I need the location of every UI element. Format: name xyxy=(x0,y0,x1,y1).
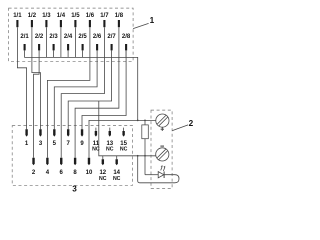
wire + bus from pin 2/1 to power module xyxy=(25,50,138,120)
connector pin 2/2 (label + pin) xyxy=(35,34,44,51)
connector pin 1/6 (label + pin) xyxy=(86,13,95,27)
wire pin 1/1 to terminal 1 xyxy=(17,27,26,129)
wire stub pin 1/5 to bus xyxy=(74,27,76,57)
wire stub pin 2/4 to bus xyxy=(67,50,69,57)
terminal 10 xyxy=(86,158,93,176)
wire minus branch to minus screw terminal xyxy=(99,101,156,156)
connector pin 1/7 (label + pin) xyxy=(100,13,109,27)
svg-text:NC: NC xyxy=(92,146,100,152)
resistor R1 xyxy=(142,120,149,155)
wire pin 1/7 to terminal 6 xyxy=(61,27,104,158)
svg-text:2/6: 2/6 xyxy=(93,34,102,40)
svg-text:4: 4 xyxy=(46,170,50,176)
junction bus / + rail xyxy=(137,120,139,122)
wire bus branch to terminal 10 xyxy=(89,120,138,157)
svg-text:1/2: 1/2 xyxy=(28,13,37,19)
wire pin 2/2 to terminal 2 xyxy=(34,50,40,157)
svg-text:5: 5 xyxy=(53,141,57,147)
svg-text:1/7: 1/7 xyxy=(100,13,109,19)
terminal 8 xyxy=(73,158,77,176)
svg-text:1/8: 1/8 xyxy=(115,13,124,19)
junction LED return / minus rail xyxy=(137,155,139,157)
svg-text:2: 2 xyxy=(189,119,194,128)
svg-text:2/4: 2/4 xyxy=(64,34,73,40)
svg-text:9: 9 xyxy=(80,141,84,147)
minus screw terminal xyxy=(156,148,169,161)
wire stub pin 2/8 to + bus xyxy=(125,50,127,57)
terminal 11 (NC) xyxy=(92,128,100,153)
svg-text:2/8: 2/8 xyxy=(122,34,131,40)
connector pin 1/1 (label + pin) xyxy=(13,13,22,27)
terminal 12 (NC) xyxy=(99,156,107,182)
terminal 15 (NC) xyxy=(120,128,128,153)
connector pin 2/3 (label + pin) xyxy=(49,34,58,51)
connector pin 2/6 (label + pin) xyxy=(93,34,102,51)
svg-text:1/1: 1/1 xyxy=(13,13,22,19)
svg-text:NC: NC xyxy=(120,146,128,152)
svg-text:1/5: 1/5 xyxy=(71,13,80,19)
svg-text:10: 10 xyxy=(86,170,93,176)
svg-text:2/1: 2/1 xyxy=(20,34,29,40)
LED D1 with wiring loop xyxy=(138,156,179,183)
wire pin 1/8 to terminal 8 xyxy=(75,27,119,158)
connector pin 2/4 (label + pin) xyxy=(64,34,73,51)
wire stub pin 2/3 to bus xyxy=(53,50,55,57)
wire pin 2/7 to terminal 7 xyxy=(68,50,111,129)
terminal 6 xyxy=(60,158,64,176)
power module outline (dashed box) node 2 xyxy=(151,110,172,188)
terminal 9 xyxy=(80,129,84,147)
terminal 3 xyxy=(39,129,43,147)
svg-text:1: 1 xyxy=(25,141,29,147)
connector pin 2/7 (label + pin) xyxy=(107,34,116,51)
svg-text:2/3: 2/3 xyxy=(49,34,58,40)
terminal 4 xyxy=(46,158,50,176)
svg-text:6: 6 xyxy=(60,170,64,176)
terminal 13 (NC) xyxy=(106,128,114,153)
svg-text:1/3: 1/3 xyxy=(42,13,51,19)
svg-text:2/2: 2/2 xyxy=(35,34,44,40)
svg-text:NC: NC xyxy=(106,146,114,152)
svg-text:12: 12 xyxy=(99,170,106,176)
svg-text:7: 7 xyxy=(67,141,71,147)
label 1 with leader line xyxy=(133,16,155,29)
svg-text:3: 3 xyxy=(39,141,43,147)
wire pin 2/6 to terminal 5 xyxy=(54,50,97,129)
terminal 5 xyxy=(53,129,57,147)
minus label xyxy=(160,145,164,147)
wire + rail to plus screw terminal xyxy=(138,119,157,121)
LED emission arrows xyxy=(161,165,166,171)
svg-text:2/7: 2/7 xyxy=(107,34,116,40)
wire stub pin 1/3 to bus xyxy=(45,27,47,57)
label 3 xyxy=(72,184,77,193)
svg-text:NC: NC xyxy=(99,176,107,182)
connector pin 1/5 (label + pin) xyxy=(71,13,80,27)
wire pin 2/8 to terminal 9 xyxy=(82,50,126,129)
wire pin 1/6 to terminal 4 xyxy=(47,27,90,158)
connector pin 2/8 (label + pin) xyxy=(122,34,131,51)
terminal 2 xyxy=(32,158,36,176)
svg-text:14: 14 xyxy=(113,170,120,176)
connector pin 1/8 (label + pin) xyxy=(115,13,124,27)
terminal 7 xyxy=(67,129,71,147)
terminal 1 xyxy=(25,129,29,147)
svg-text:1/6: 1/6 xyxy=(86,13,95,19)
svg-text:1/4: 1/4 xyxy=(57,13,66,19)
wire stub pin 1/4 to bus xyxy=(60,27,62,57)
svg-text:2: 2 xyxy=(32,170,36,176)
junction resistor / minus rail xyxy=(144,155,146,157)
connector pin 2/5 (label + pin) xyxy=(78,34,87,51)
wire pin 1/2 to terminal 3 xyxy=(32,27,41,129)
connector pin 1/2 (label + pin) xyxy=(28,13,37,27)
connector pin 2/1 (label + pin) xyxy=(20,34,29,51)
svg-text:NC: NC xyxy=(113,176,121,182)
plus screw terminal xyxy=(156,114,169,131)
svg-text:1: 1 xyxy=(150,16,155,25)
connector pin 1/4 (label + pin) xyxy=(57,13,66,27)
svg-text:3: 3 xyxy=(72,184,77,193)
terminal 14 (NC) xyxy=(113,156,121,182)
terminal strip outline (dashed box) node 3 xyxy=(12,126,132,186)
connector pin 1/3 (label + pin) xyxy=(42,13,51,27)
label 2 with leader line xyxy=(172,119,193,131)
junction resistor / + rail xyxy=(144,120,146,122)
connector outline (dashed box) node 1 xyxy=(9,8,134,61)
svg-text:8: 8 xyxy=(73,170,77,176)
wire stub pin 2/5 to bus xyxy=(82,50,84,57)
svg-text:2/5: 2/5 xyxy=(78,34,87,40)
